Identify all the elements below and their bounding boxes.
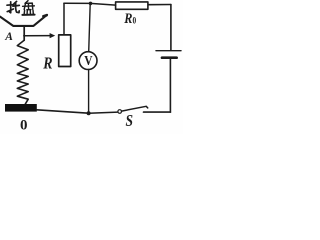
tray stem rod	[23, 27, 25, 41]
label 托盘 (tray) hanzi 盘	[22, 1, 34, 15]
wire base block to bottom junction	[37, 110, 89, 113]
switch S pivot	[118, 110, 122, 114]
svg-text:V: V	[84, 53, 93, 68]
voltmeter body circle	[79, 52, 97, 70]
rheostat top lead wire	[63, 3, 65, 35]
battery positive plate (long thin)	[156, 50, 181, 52]
resistor R0 box	[116, 2, 148, 9]
voltmeter top lead wire	[89, 3, 91, 51]
svg-text:R: R	[42, 54, 52, 73]
rheostat R box	[59, 35, 71, 67]
top wire left segment (R0 to rheostat corner)	[64, 3, 116, 5]
svg-text:S: S	[126, 113, 134, 130]
right wire upper segment	[170, 5, 172, 51]
node junction dot (voltmeter bottom tap)	[87, 111, 91, 115]
svg-text:A: A	[4, 31, 13, 43]
right wire lower segment	[169, 59, 171, 113]
wire switch to bottom-right corner	[144, 111, 171, 113]
top junction dot (voltmeter top tap)	[89, 2, 93, 6]
svg-text:0: 0	[20, 118, 28, 134]
spring	[17, 40, 28, 104]
svg-text:R0: R0	[123, 10, 136, 26]
tray (pan outline)	[0, 15, 47, 26]
spring fixed base block	[5, 104, 37, 112]
top wire right segment (corner to R0)	[148, 4, 171, 6]
node A junction dot	[23, 35, 25, 37]
switch S lever	[122, 106, 148, 111]
label 托盘 (tray) hanzi 托	[7, 1, 19, 12]
battery negative plate (short thick)	[162, 56, 177, 59]
wiper arrow wire from node A	[24, 35, 50, 37]
wiper arrowhead	[50, 33, 56, 38]
wire junction to switch	[89, 112, 118, 113]
voltmeter bottom lead wire	[88, 70, 90, 114]
